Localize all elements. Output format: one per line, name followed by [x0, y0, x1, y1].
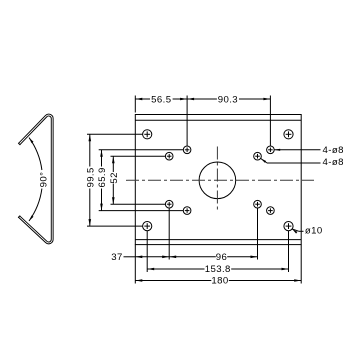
svg-text:90°: 90°	[38, 172, 49, 188]
outer small hole top-right (dia 8)	[267, 146, 275, 154]
inner small hole bottom-left (dia 8)	[165, 200, 173, 208]
outer small hole bottom-left (dia 8)	[183, 207, 191, 215]
svg-text:4-ø8: 4-ø8	[323, 157, 344, 168]
big hole top-right (dia 10)	[284, 130, 293, 139]
dim line 65.9	[101, 150, 103, 167]
inner small hole bottom-right (dia 8)	[254, 200, 262, 208]
dim line 96	[169, 256, 216, 258]
dim line 180	[135, 280, 211, 282]
extension line big col right	[288, 231, 290, 272]
plate outline	[135, 115, 301, 245]
dim line 153.8	[147, 268, 204, 270]
svg-text:153.8: 153.8	[205, 264, 231, 275]
outer small hole bottom-right (dia 8)	[267, 207, 275, 215]
dim line 52	[112, 156, 114, 172]
extension line inner col left	[168, 208, 170, 260]
leader 4-dia8 inner	[261, 158, 267, 163]
extension lines for 65.9	[99, 149, 184, 151]
extension line inner col right	[257, 208, 259, 260]
leader 4-dia8 outer	[274, 149, 320, 151]
dim line 99.5	[89, 134, 91, 166]
extension line right edge bottom	[300, 245, 302, 284]
big hole bottom-left (dia 10)	[143, 222, 152, 231]
extension lines for 52	[111, 155, 166, 157]
bracket side-view profile	[19, 115, 52, 243]
bracket top flange end cap	[18, 143, 20, 145]
svg-text:4-ø8: 4-ø8	[323, 145, 344, 156]
extension line big col left	[146, 231, 148, 272]
svg-text:52: 52	[109, 172, 120, 183]
big hole top-left (dia 10)	[143, 130, 152, 139]
extension line left edge top	[134, 96, 136, 113]
svg-text:99.5: 99.5	[85, 167, 96, 187]
extension line hole col 56.5	[186, 96, 188, 147]
extension line left edge bottom	[134, 245, 136, 284]
vertical centerline	[216, 147, 218, 213]
svg-text:65.9: 65.9	[97, 167, 108, 187]
svg-text:ø10: ø10	[305, 225, 323, 236]
90-degree dimension arc	[29, 138, 42, 170]
top fold line	[135, 119, 301, 121]
svg-text:56.5: 56.5	[151, 95, 171, 106]
svg-text:96: 96	[216, 252, 227, 263]
extension lines for 99.5	[87, 133, 143, 135]
bottom fold line	[135, 239, 301, 241]
horizontal centerline	[126, 179, 314, 181]
svg-text:37: 37	[111, 252, 122, 263]
dim line 90.3	[187, 98, 217, 100]
leader dia10	[292, 229, 299, 231]
extension line hole col 90.3	[269, 96, 271, 147]
svg-text:180: 180	[211, 276, 228, 287]
bracket bottom flange end cap	[18, 216, 20, 218]
dim line 37	[124, 256, 136, 258]
inner small hole top-left (dia 8)	[165, 152, 173, 160]
center circle	[199, 162, 236, 199]
big hole bottom-right (dia 10)	[284, 222, 293, 231]
svg-text:90.3: 90.3	[218, 95, 238, 106]
dim line 56.5	[135, 98, 150, 100]
outer small hole top-left (dia 8)	[183, 146, 191, 154]
inner small hole top-right (dia 8)	[254, 152, 262, 160]
